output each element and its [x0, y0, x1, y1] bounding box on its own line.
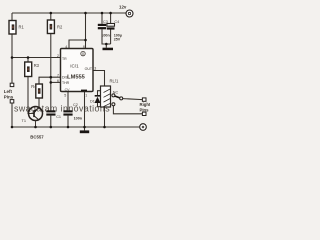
wire left drop to R1 [11, 13, 13, 21]
junction C2 rail [67, 126, 70, 129]
capacitor C4 electrolytic [107, 20, 122, 42]
svg-text:7: 7 [57, 74, 59, 78]
svg-text:THR: THR [62, 81, 70, 85]
svg-text:OUT: OUT [85, 67, 93, 71]
wire R1 bottom to pin2 node [11, 34, 13, 58]
svg-text:8: 8 [83, 45, 85, 49]
wire gnd stub bottom [84, 127, 86, 130]
svg-text:CV: CV [65, 88, 71, 92]
svg-text:6: 6 [57, 79, 59, 83]
svg-text:C1: C1 [56, 115, 61, 119]
junction R2 pin7 [50, 76, 53, 79]
wire R3 to T1 base [28, 77, 34, 114]
svg-text:R2: R2 [57, 24, 63, 29]
wire out pin3 to relay coil [93, 71, 105, 87]
wire C4 stub [110, 13, 112, 23]
svg-text:D1: D1 [90, 100, 95, 104]
svg-text:12v: 12v [119, 5, 127, 10]
relay contact [112, 91, 123, 106]
wire pin1 to ground rail [84, 92, 86, 128]
junction C3 rail [101, 12, 104, 15]
capacitor C1 [46, 110, 61, 119]
junction pin8 riser corner [84, 39, 87, 42]
terminal 12v [119, 5, 133, 17]
wire gnd stub top [105, 44, 107, 48]
wire pin2 horizontal [12, 57, 61, 59]
svg-text:Pins: Pins [4, 95, 14, 100]
svg-text:RL/1: RL/1 [110, 78, 120, 83]
wire coil bottom to rail [104, 107, 106, 127]
terminal 0v [140, 124, 147, 131]
relay RL1 coil [101, 78, 120, 107]
wire R3 stub [27, 58, 29, 63]
svg-text:C2: C2 [73, 103, 78, 107]
svg-text:2: 2 [57, 54, 59, 58]
resistor R4 [31, 84, 42, 98]
wire bottom rail [12, 126, 140, 128]
op-amp U1 : IC1 LM555 box [61, 49, 94, 92]
svg-text:BC557: BC557 [30, 135, 44, 140]
svg-text:DIS: DIS [62, 76, 69, 80]
wire R4 to T1 emitter [38, 98, 40, 107]
resistor R2 [47, 20, 63, 34]
wire R2 top stub [50, 13, 52, 20]
svg-text:5: 5 [64, 93, 66, 97]
resistor R3 [25, 62, 40, 77]
node Left Pins label [4, 89, 14, 99]
svg-text:LM555: LM555 [67, 74, 85, 80]
wire pin6 [51, 81, 61, 83]
ground under C3 C4 [103, 48, 114, 51]
svg-text:Pins: Pins [140, 107, 150, 112]
junction C3 C4 ground [105, 43, 108, 46]
wire top rail [12, 12, 126, 14]
junction left wire bottom rail [11, 126, 14, 129]
svg-text:TR: TR [62, 57, 67, 61]
wire C3 stub [101, 13, 103, 24]
transistor Q1 T1 BC557 [22, 107, 45, 140]
wire R2 down to C1 [50, 34, 52, 111]
diode D1 [90, 95, 101, 104]
svg-text:25V: 25V [114, 38, 121, 42]
left touch pad 1 [10, 83, 14, 86]
wire pin7 to R4 [39, 77, 61, 84]
junction R2 top rail [50, 12, 53, 15]
wire pin5 to C2 [67, 92, 69, 111]
wire diode bottom link [98, 103, 105, 107]
svg-text:T1: T1 [22, 118, 27, 123]
right pad 2 [142, 112, 146, 115]
svg-text:4: 4 [65, 45, 67, 49]
capacitor C2 [63, 103, 82, 121]
junction C4 rail [109, 12, 112, 15]
svg-text:R3: R3 [34, 63, 40, 68]
junction pin1 rail [83, 126, 86, 129]
junction left wire pin2 [11, 56, 14, 59]
svg-text:R4: R4 [31, 84, 37, 89]
ground pin1 mark inside IC [81, 90, 87, 92]
wire diode top link [98, 91, 101, 95]
svg-text:R1: R1 [19, 24, 25, 29]
junction supply riser rail [84, 12, 87, 15]
svg-text:100n: 100n [74, 117, 83, 121]
resistor R1 [9, 21, 24, 35]
junction R2 pin6 [50, 81, 53, 84]
junction relay coil rail [103, 126, 106, 129]
left touch pad 2 [10, 100, 14, 103]
junction R3 pin2 wire [27, 56, 30, 59]
wire supply riser pins 4 8 [69, 13, 86, 49]
wire left pad2 to bottom rail [11, 103, 13, 127]
wire C3 bottom [102, 29, 111, 44]
capacitor C3 [98, 20, 111, 38]
junction T1 collector rail [34, 126, 37, 129]
node Right Pins label [140, 102, 152, 112]
wire C2 to bottom rail [67, 116, 69, 127]
junction C1 rail [50, 126, 53, 129]
wire pin8 stub [85, 40, 87, 49]
svg-text:100n: 100n [101, 34, 110, 38]
svg-text:1: 1 [85, 93, 87, 97]
ground under rail [80, 130, 89, 133]
wire node to left pad1 [11, 58, 13, 84]
svg-text:3: 3 [94, 66, 96, 70]
wire relay contact output upper [123, 99, 143, 100]
svg-text:Left: Left [4, 89, 13, 94]
right pad 1 [142, 98, 146, 101]
wire C1 to bottom rail [50, 116, 52, 127]
svg-text:C4: C4 [114, 20, 119, 24]
svg-text:IC/1: IC/1 [70, 64, 79, 69]
wire relay contact output lower [113, 106, 142, 114]
wire C4 bottom [110, 30, 112, 45]
